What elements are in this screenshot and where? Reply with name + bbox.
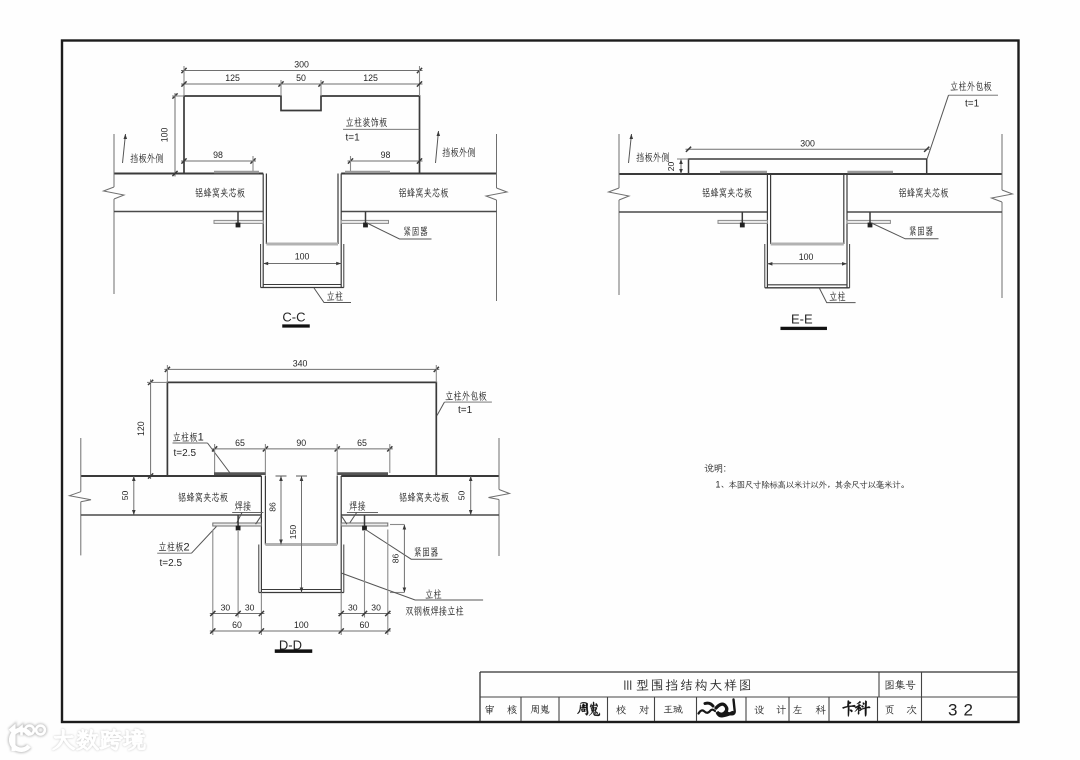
watermark text [53, 729, 145, 750]
E-E clamp plate right [847, 220, 890, 223]
watermark logo 10100 [10, 726, 45, 751]
svg-text:2: 2 [184, 541, 190, 553]
C-C label outside-of-panel left with arrow [123, 134, 163, 163]
C-C dim 100 vertical left [160, 93, 185, 177]
C-C box bottom edges / panel top lines [114, 173, 497, 175]
D-D dims 30/30 right [338, 603, 391, 617]
svg-text:90: 90 [296, 438, 306, 448]
E-E panel top lines [619, 173, 1002, 175]
title block: atlas no. label [885, 680, 915, 690]
D-D dim 50 left [120, 476, 136, 515]
D-D clamp plate right with angled end [341, 516, 388, 527]
C-C bolt left [236, 212, 240, 228]
C-C dim 98 right [348, 150, 423, 172]
D-D label column plate 1 with leader [173, 432, 231, 473]
title block: reviewer name [531, 704, 550, 713]
D-D bolt left [236, 515, 240, 530]
D-D dim 340 [164, 358, 439, 382]
title block grid [480, 672, 1019, 721]
D-D dim 120 vertical [136, 379, 167, 479]
E-E clamp plate left [718, 220, 767, 223]
E-E honeycomb panel right [847, 188, 1002, 212]
svg-text:125: 125 [225, 73, 240, 83]
E-E channel dim 100 [767, 252, 847, 266]
svg-text:100: 100 [295, 252, 310, 262]
D-D dims 60/100/60 [210, 620, 391, 634]
E-E column channel [765, 174, 850, 288]
svg-text:340: 340 [293, 358, 308, 368]
svg-text:32: 32 [948, 701, 979, 720]
svg-text:86: 86 [391, 554, 401, 564]
title block: review label [485, 705, 516, 715]
title block: designer name [793, 705, 826, 715]
svg-text:125: 125 [363, 73, 378, 83]
D-D dim 86 vertical [268, 476, 287, 545]
title block: designer signature [842, 700, 870, 716]
D-D label wrap plate with leader [437, 391, 492, 416]
svg-text:98: 98 [381, 150, 391, 160]
title block: design label [754, 705, 786, 715]
svg-text:50: 50 [120, 491, 130, 501]
svg-text:t=2.5: t=2.5 [160, 558, 183, 569]
svg-text:60: 60 [360, 620, 370, 630]
E-E section title [781, 311, 827, 329]
E-E left wall edge with break [609, 134, 630, 295]
C-C clamp plate left [214, 220, 263, 223]
notes heading [704, 464, 726, 475]
E-E dim 20 vertical [666, 159, 689, 174]
svg-text:t=1: t=1 [346, 133, 361, 144]
D-D dim 86 right vertical [390, 525, 406, 593]
svg-text:86: 86 [268, 502, 278, 512]
D-D dim 150 vertical [288, 476, 307, 593]
svg-text:30: 30 [221, 603, 231, 613]
title block: reviewer signature [577, 702, 600, 716]
title block: page number 32 [948, 701, 979, 720]
D-D column plate1 pad right (dark) [337, 472, 388, 475]
D-D dims 65/90/65 [212, 438, 393, 476]
svg-text:60: 60 [232, 620, 242, 630]
svg-text:65: 65 [235, 438, 245, 448]
C-C honeycomb panel left [114, 188, 263, 212]
svg-text:t=1: t=1 [965, 98, 980, 109]
D-D left wall edge with break [70, 438, 92, 555]
svg-text:98: 98 [213, 150, 223, 160]
C-C fastener label with leader [367, 223, 432, 239]
svg-text:30: 30 [245, 603, 255, 613]
E-E label column wrap plate with leader [927, 81, 998, 158]
E-E bolt left [740, 212, 744, 227]
D-D column label with leader [341, 573, 483, 616]
D-D label column plate 2 with leader [157, 527, 216, 570]
svg-text:t=2.5: t=2.5 [174, 448, 197, 459]
svg-text:1: 1 [198, 432, 204, 444]
E-E column label with leader [819, 288, 855, 303]
D-D bottom extension lines [213, 530, 388, 636]
C-C clamp plate right [341, 220, 388, 223]
svg-text:30: 30 [348, 603, 358, 613]
title block: proofer signature [699, 700, 735, 716]
D-D dim 50 right [457, 476, 473, 515]
C-C label column decorative plate [343, 117, 420, 143]
svg-text:120: 120 [136, 421, 146, 436]
D-D section title [275, 638, 312, 653]
D-D honeycomb panel right [341, 492, 499, 515]
svg-text:50: 50 [296, 73, 306, 83]
svg-text:100: 100 [799, 252, 814, 262]
C-C bolt right [364, 212, 368, 228]
C-C dim 98 left [181, 150, 256, 172]
C-C dim 125/50/125 [181, 73, 423, 96]
svg-text:t=1: t=1 [458, 405, 473, 416]
C-C decorative plate box (outer profile with top notch) [184, 96, 420, 174]
svg-text:50: 50 [457, 491, 467, 501]
svg-text:1: 1 [716, 480, 721, 490]
E-E bolt right [868, 212, 872, 227]
C-C section title [282, 310, 309, 328]
D-D column plate1 pad left (dark) [214, 472, 265, 475]
D-D column channel walls [259, 476, 344, 593]
svg-text:100: 100 [294, 620, 309, 630]
C-C channel dim 100 [263, 252, 341, 266]
D-D weld label left [232, 501, 263, 524]
E-E right wall edge with break [992, 134, 1013, 298]
svg-text:300: 300 [294, 60, 309, 70]
D-D bolt right [363, 515, 367, 530]
C-C right wall edge with break symbol [486, 134, 507, 301]
D-D right wall edge with break [489, 438, 510, 556]
E-E gray pad left [720, 171, 767, 174]
E-E fastener label with leader [872, 223, 939, 239]
svg-text:E-E: E-E [791, 311, 813, 326]
D-D fastener label with leader [366, 530, 443, 560]
D-D wrap plate big box [167, 382, 436, 476]
E-E label outside-of-panel with arrow [629, 134, 669, 163]
title block: proofer name [664, 705, 683, 714]
svg-text:150: 150 [288, 525, 298, 540]
title block: proof label [616, 705, 649, 714]
E-E wrap plate (top) [689, 159, 927, 174]
sheet border [62, 41, 1019, 723]
svg-text:C-C: C-C [282, 310, 305, 325]
C-C gray pad right on panel top [345, 171, 390, 174]
C-C column channel walls and bottom [261, 174, 344, 288]
svg-text:20: 20 [666, 162, 676, 172]
D-D box bottom / panel top lines [81, 475, 499, 477]
D-D dims 30/30 left [210, 603, 265, 617]
D-D weld label right [347, 501, 378, 524]
title block: page label [885, 705, 916, 715]
C-C label outside-of-panel right with arrow [436, 131, 475, 163]
svg-text:65: 65 [357, 438, 367, 448]
E-E honeycomb panel left [619, 188, 767, 212]
E-E gray pad right [847, 171, 893, 174]
svg-text:30: 30 [371, 603, 381, 613]
D-D honeycomb panel left [81, 492, 262, 515]
C-C column label with leader [314, 288, 351, 303]
C-C left wall edge with break symbol [104, 134, 125, 294]
note 1 [716, 480, 904, 490]
D-D clamp plate left with angled end [213, 516, 262, 527]
C-C dim 300 [181, 60, 423, 97]
svg-text:300: 300 [800, 138, 815, 148]
svg-text::: : [723, 464, 726, 475]
svg-text:100: 100 [160, 128, 170, 143]
C-C gray pad left on panel top [214, 171, 259, 174]
C-C honeycomb panel right [341, 188, 496, 212]
E-E dim 300 [686, 138, 930, 152]
title block: drawing title [624, 679, 750, 691]
